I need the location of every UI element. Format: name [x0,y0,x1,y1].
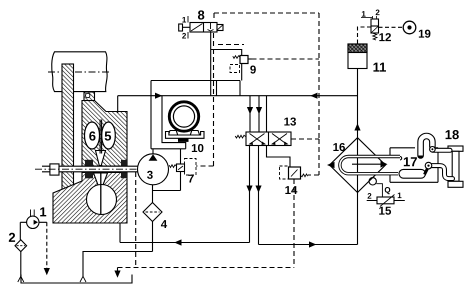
dashed pilot box top [196,13,319,166]
svg-text:2: 2 [8,230,15,245]
engine shaft cylinder [48,52,110,92]
wire valve13 right drain [258,146,260,245]
relief valve 9 [211,50,252,81]
main riser accumulator to diamond [357,69,359,245]
svg-text:10: 10 [191,143,204,155]
arrow on line C right [310,93,317,99]
arrow on line C left [155,93,162,99]
svg-text:12: 12 [379,32,392,44]
valve 8 [179,16,223,39]
svg-text:2: 2 [375,8,380,17]
svg-text:15: 15 [379,206,392,218]
wire housing drain [119,223,121,243]
orifice valve 15 [367,195,405,207]
dashed drain bus drop [114,268,120,278]
piston 17 [399,167,429,179]
dashed pilot valve13 [291,138,319,140]
svg-text:2: 2 [182,31,187,40]
dashed pump3 drain [135,172,137,268]
wire valve13 feed 3 [266,96,268,132]
relief valve 7 [153,149,185,191]
svg-text:1: 1 [361,10,366,19]
shaft bearings [85,160,127,178]
arrow return left [174,239,181,245]
svg-text:11: 11 [373,60,387,75]
wire pump3 suction [152,185,154,203]
wire junction to tank [83,252,153,277]
svg-text:8: 8 [197,7,204,22]
cone pulley 5 [102,122,116,149]
svg-text:9: 9 [250,65,256,77]
bearing on housing top [84,92,95,101]
valve 12 [361,16,379,40]
wire line C drop to housing [117,96,119,113]
arrow return right [309,241,316,247]
svg-text:17: 17 [403,154,417,169]
variator housing upper block [82,101,127,167]
wire valve13 left drain [249,146,251,243]
pump 3 [138,154,169,185]
arrow riser up [354,123,360,130]
wire pump3 riser to line A [150,81,152,149]
wire filter4 to tank junction [152,222,154,252]
arrow in tube [352,161,388,168]
fork bracket [429,150,453,178]
cooler diamond 16 [330,138,386,193]
arrow right drain [255,186,261,193]
actuator frame 17 [390,148,438,183]
belt line lower [100,173,102,215]
dashed drain valve14 [293,179,295,268]
wire valve8 drop [210,32,212,96]
accumulator 11 [348,44,367,69]
input shaft [42,166,138,172]
belt line upper [99,120,101,154]
wire return line right [259,244,358,246]
svg-text:1: 1 [39,204,46,219]
tank [18,275,132,284]
svg-text:13: 13 [284,117,297,129]
wire pump top tick [152,149,154,155]
wire riser corner bottom [357,244,359,245]
arrow diamond left [327,162,335,169]
svg-text:7: 7 [188,173,194,185]
dashed drain bus [118,267,295,269]
dashed pump1 drain [43,222,50,275]
lower roller ball [87,185,117,215]
upper funnel cutout [96,151,106,166]
wire return line left [120,242,250,244]
valve 14 [289,167,308,179]
svg-text:18: 18 [445,127,459,142]
svg-text:1: 1 [182,15,187,24]
dashed pilot rect valve14 [280,166,289,179]
filter 2 [15,240,27,277]
lower funnel cutout [94,173,108,185]
shaft centerline [35,168,169,170]
svg-text:1: 1 [397,191,402,200]
svg-text:3: 3 [147,170,153,182]
filter 4 [143,203,162,222]
svg-text:2: 2 [367,192,372,201]
svg-text:Q: Q [384,186,390,195]
wire valve13 to valve14 [267,146,291,168]
pivot joint upper [430,147,436,153]
arrow feed 1 [247,107,253,114]
variator housing lower block [53,173,127,224]
hook tube [421,136,433,156]
gauge 19 [403,21,416,34]
svg-text:5: 5 [104,129,111,144]
dashed pilot to valve14 [308,139,319,175]
dashed rect below 9 [230,65,240,73]
shaft nut [50,164,59,175]
dashed gauge line [379,26,404,28]
wire drop at 216 [216,81,218,96]
band brake 10 [166,102,205,142]
svg-text:4: 4 [161,219,168,231]
pivot joint lower [425,162,432,169]
svg-text:14: 14 [285,185,298,197]
wire valve13 feed 1 [249,96,251,132]
wire valve13 feed 2 [258,96,260,132]
cone pulley 6 [85,122,100,149]
pitot tube in diamond [340,157,402,174]
wire line C [118,95,358,97]
aux pump 1 [20,210,43,240]
dashed box around 9 [218,44,244,46]
wire line A [151,80,240,82]
arrow feed 2 [256,107,262,114]
brake 10 enclosure [162,96,186,149]
svg-text:16: 16 [333,142,346,154]
svg-text:6: 6 [89,129,96,144]
lever plate 18 [448,146,463,187]
dashed accumulator pilot [358,27,372,44]
wire line A drop [239,81,241,96]
svg-text:19: 19 [418,29,431,41]
dashed from 9 to box [252,58,320,60]
arrow left drain [246,186,252,193]
valve 13 [235,132,291,146]
dashed pilot rect valve7 [185,159,197,176]
housing wall (vertical hatched) [62,64,74,204]
flow sensor Q [369,178,382,197]
wire pump top line [151,148,186,150]
